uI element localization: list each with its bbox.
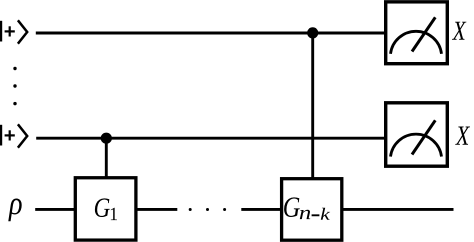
measurement meter box M2 (second qubit)	[386, 103, 448, 166]
ket |+> label (second qubit input)	[1, 124, 27, 147]
horizontal ellipsis dots between G1 and Gn-k	[189, 208, 226, 211]
wire: rho wire segment (Gn-k to output)	[341, 208, 454, 211]
wire: rho wire segment (G1 to ellipsis)	[136, 208, 177, 211]
vertical ellipsis dots between qubit wires	[13, 67, 16, 106]
wire: control wire from dot on second qubit down to G1	[105, 138, 108, 177]
meter M2 needle	[412, 120, 435, 154]
meter M1 needle	[412, 17, 435, 51]
wire: second qubit wire	[36, 137, 385, 140]
meter M2 arc	[391, 134, 442, 156]
gate box G1	[75, 178, 136, 240]
rho label (data register input)	[8, 198, 21, 221]
wire: top qubit wire	[36, 32, 385, 35]
ket |+> label (top qubit input)	[1, 20, 27, 43]
measurement basis label X (bottom)	[455, 126, 470, 144]
meter M1 arc	[391, 31, 442, 53]
label Gn-k	[284, 197, 300, 217]
control dot on top qubit wire	[307, 27, 318, 38]
wire: rho wire segment (rho to G1)	[35, 208, 76, 211]
control dot on second qubit wire	[101, 133, 112, 144]
gate box Gn-k	[282, 179, 342, 241]
measurement meter box M1 (top qubit)	[386, 2, 448, 64]
label G1	[95, 198, 110, 217]
measurement basis label X (top)	[452, 22, 466, 40]
wire: control wire from dot on top qubit down to Gn-k	[311, 33, 314, 179]
wire: rho wire segment (ellipsis to Gn-k)	[241, 208, 282, 211]
